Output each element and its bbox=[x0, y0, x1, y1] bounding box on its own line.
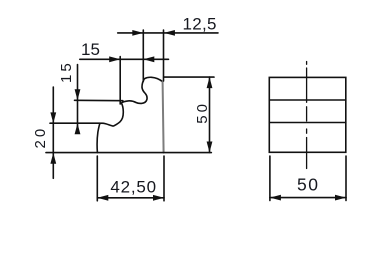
arrowhead 15v top (points down) bbox=[75, 89, 81, 100]
arrowhead 20 top (points down) bbox=[50, 112, 56, 123]
right view rectangle bbox=[269, 77, 346, 152]
left view stepped profile outline bbox=[97, 77, 162, 152]
svg-text:15: 15 bbox=[81, 40, 100, 59]
arrowhead 15h right (points left) bbox=[143, 56, 154, 62]
extension line vertical x=164 for 42,50 bbox=[163, 156, 165, 201]
svg-text:50: 50 bbox=[194, 101, 211, 124]
svg-text:15: 15 bbox=[58, 60, 75, 83]
arrowhead 20 bottom (points up) bbox=[50, 153, 56, 164]
extension line top right y=77.1 bbox=[164, 76, 214, 78]
left view right edge (light line) bbox=[163, 82, 164, 153]
right view inner edge y=122.5 bbox=[269, 122, 346, 124]
dimension line 50 right view bbox=[270, 197, 346, 199]
arrowhead 42,50 right (points right) bbox=[153, 195, 164, 201]
arrowhead 50 right view left (points left) bbox=[270, 195, 281, 201]
extension line step level y=100 bbox=[75, 99, 123, 101]
dimension line 50 left view bbox=[209, 77, 211, 152]
extension line vertical x=143.3 for 12,5 bbox=[142, 30, 144, 82]
dimension line 42,50 bbox=[97, 197, 164, 199]
arrowhead 15h left (points right) bbox=[109, 56, 120, 62]
svg-text:42,50: 42,50 bbox=[110, 178, 157, 197]
extension line vertical x=346 for 50 bbox=[345, 156, 347, 201]
right view inner edge y=100 bbox=[269, 99, 346, 101]
extension line vertical x=120.2 for 15 bbox=[119, 57, 121, 105]
extension line step level y=123.4 bbox=[50, 122, 101, 124]
extension line vertical x=97.3 for 42,50 bbox=[96, 156, 98, 201]
arrowhead 12,5 right (points left) bbox=[164, 30, 175, 36]
left view bottom edge with extension line both sides bbox=[46, 152, 211, 154]
arrowhead 50 left view bottom (points down) bbox=[207, 142, 213, 153]
svg-text:20: 20 bbox=[32, 126, 49, 149]
arrowhead 12,5 left (points right) bbox=[132, 30, 143, 36]
arrowhead 50 left view top (points up) bbox=[207, 77, 213, 88]
arrowhead 15v bottom (points up) bbox=[75, 123, 81, 134]
dimension line 20 vertical bbox=[52, 87, 54, 178]
svg-text:12,5: 12,5 bbox=[183, 15, 217, 34]
dimension line 12,5 bbox=[118, 32, 218, 34]
extension line vertical x=269.9 for 50 bbox=[269, 156, 271, 201]
svg-text:50: 50 bbox=[297, 175, 319, 195]
right view centerline dash-dot bbox=[306, 62, 308, 169]
dimension line 15 horizontal bbox=[80, 58, 169, 60]
arrowhead 50 right view right (points right) bbox=[335, 195, 346, 201]
dimension line 15 vertical bbox=[77, 65, 79, 133]
extension line vertical x=163.5 for 12,5 bbox=[163, 30, 165, 81]
arrowhead 42,50 left (points left) bbox=[97, 195, 108, 201]
